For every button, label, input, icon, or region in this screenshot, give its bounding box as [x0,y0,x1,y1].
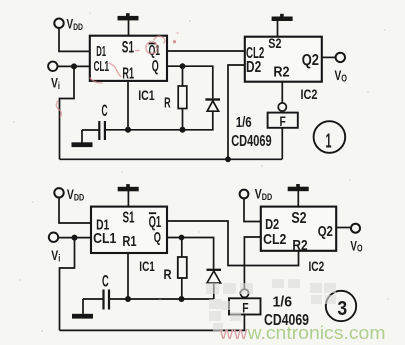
svg-text:S1: S1 [122,39,134,57]
svg-text:S2: S2 [268,35,281,51]
node R1 pin on rail (bottom) [125,296,131,302]
wire Vi down-jog to input rail [60,66,75,159]
svg-text:Q: Q [154,229,161,246]
wire Q2 to Vo [322,56,336,58]
watermark gray blocks [206,279,336,331]
wire Q1bar to CL2 [167,50,245,52]
svg-text:1/6: 1/6 [236,114,252,131]
svg-text:IC1: IC1 [139,258,155,274]
flip-flop IC1 (top) box [90,36,167,81]
svg-text:Q2: Q2 [302,52,319,69]
svg-text:3: 3 [337,298,347,320]
ground above S1 (top) [128,20,130,36]
svg-text:www.cntronics.com: www.cntronics.com [218,322,385,343]
wire VDD to D2 (bottom) [244,198,261,221]
node Q junction (bottom) [179,235,185,241]
svg-text:D2: D2 [246,59,261,76]
svg-text:VDD: VDD [255,186,272,203]
node Vi junction (bottom) [72,235,78,241]
wire Q to R and diode [167,66,213,98]
ground above S2 (bottom) [297,191,299,207]
svg-text:S2: S2 [291,210,306,227]
node Q junction [180,63,186,69]
wire input rail (bottom) to F input [60,314,245,331]
circled number 1 [314,121,346,153]
svg-text:IC2: IC2 [309,258,325,274]
wire F output to input rail [281,128,283,160]
terminal VDD (bottom left) [54,188,63,197]
resistor R (top) [182,66,184,86]
node R bottom on rail [180,127,186,133]
svg-text:Q: Q [152,58,159,75]
svg-text:VDD: VDD [67,16,84,33]
diode VD (bottom, cathode up) [207,269,222,271]
terminal Vo (bottom) [351,224,360,233]
svg-text:R1: R1 [122,233,136,250]
inverter F (bottom): bubble to CL2 [244,237,260,289]
svg-text:IC1: IC1 [138,87,155,103]
svg-text:IC2: IC2 [301,86,318,102]
wire VDD to D1 [59,28,90,52]
wire R1 pin [127,81,129,130]
svg-text:R: R [164,95,171,112]
watermark red scribbles [56,36,165,117]
wire Vi to CL1 [58,65,90,67]
wire Q2 to Vo (bottom) [336,227,351,229]
terminal VDD (bottom mid) [240,190,249,199]
wire Vi down-jog to input rail (bottom) [60,238,75,331]
flip-flop IC1 (bottom) box [91,207,167,253]
svg-text:Q2: Q2 [318,223,333,240]
wire VDD to D1 (bottom) [59,197,91,223]
svg-text:C: C [102,272,109,290]
svg-text:CL1: CL1 [93,230,116,247]
wire timing rail (top) [105,129,214,131]
node D2 tap on input rail [225,156,231,162]
svg-text:R2: R2 [273,64,289,80]
terminal Vi (bottom) [49,233,58,242]
svg-text:R2: R2 [292,237,307,254]
node Vi junction [71,63,77,69]
ground above S2 (top) [277,20,279,37]
circled number 3 [326,291,356,321]
wire input rail (Vi to F input) [60,158,283,160]
inverter F (top): R2 pin to bubble [281,82,283,103]
svg-text:CD4069: CD4069 [231,133,272,150]
flip-flop IC2 (top) box [245,37,322,82]
wire D2 to input rail [228,65,245,159]
wire Q1bar to R2 (bottom) [167,221,299,266]
svg-text:D1: D1 [96,44,106,60]
node R bottom on rail (bottom) [179,296,185,302]
wire timing rail (bottom) [109,298,214,300]
svg-text:Q1: Q1 [149,43,161,59]
svg-text:R: R [164,266,172,282]
resistor R (bottom) [181,238,183,258]
terminal Vi (top) [48,62,57,71]
ground below C (top) [81,130,83,143]
terminal VDD (top circuit) [54,19,63,28]
capacitor C (top) [98,121,100,140]
svg-text:VO: VO [350,239,362,255]
capacitor C (bottom) [102,290,104,310]
diode VD (top, cathode up) [205,98,220,100]
flip-flop IC2 (bottom) box [261,207,336,251]
svg-text:1: 1 [326,130,332,152]
ground below C (bottom) [82,299,84,314]
svg-text:VDD: VDD [67,187,84,204]
svg-text:Vi: Vi [51,76,60,93]
svg-text:Vi: Vi [51,248,60,265]
svg-text:CL2: CL2 [263,231,286,248]
svg-text:CL1: CL1 [94,59,110,75]
svg-text:VO: VO [335,68,348,84]
wire Q to R and diode (bottom) [167,238,214,269]
wire Vi to CL1 (bottom) [58,237,91,239]
svg-text:F: F [242,299,249,315]
svg-text:C: C [102,102,108,120]
terminal Vo (top) [336,53,345,62]
wire R1 pin (bottom) [127,253,129,299]
svg-text:R1: R1 [122,65,134,82]
svg-text:1/6: 1/6 [273,293,293,310]
node R1 pin on rail [125,127,131,133]
ground above S1 (bottom) [127,191,129,207]
svg-text:S1: S1 [123,209,135,226]
svg-text:F: F [280,113,287,129]
